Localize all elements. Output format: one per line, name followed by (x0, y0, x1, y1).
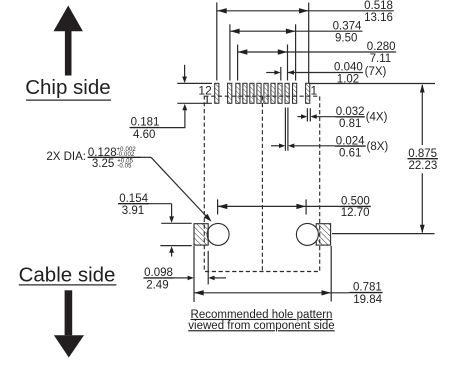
svg-text:19.84: 19.84 (353, 294, 382, 306)
svg-text:0.181: 0.181 (131, 116, 160, 128)
stub line near pin 12 (206, 96, 208, 103)
svg-text:0.875: 0.875 (408, 148, 437, 160)
dim 0.040/1.02 (7X) (266, 62, 386, 86)
svg-text:0.81: 0.81 (339, 118, 361, 130)
svg-text:2X DIA:: 2X DIA: (46, 151, 86, 163)
pad P1 (306, 83, 310, 103)
chip side label (25, 76, 111, 100)
pad P3 (285, 83, 289, 103)
left hole circle (207, 223, 229, 245)
extension line pad1 (308, 3, 310, 84)
svg-text:0.032: 0.032 (336, 106, 365, 118)
extension line pad4 (280, 67, 282, 81)
extension line pad2 (295, 24, 297, 80)
svg-text:(8X): (8X) (367, 141, 389, 153)
svg-text:13.16: 13.16 (364, 12, 393, 24)
extension line pad10 (237, 45, 239, 81)
top right reference line (309, 83, 435, 85)
svg-text:0.781: 0.781 (353, 281, 382, 293)
svg-text:3.25: 3.25 (92, 158, 114, 170)
svg-text:2.49: 2.49 (146, 279, 168, 291)
svg-text:12: 12 (198, 83, 212, 97)
dim 0.181/4.60 (130, 65, 212, 141)
svg-text:12.70: 12.70 (341, 207, 370, 219)
left hole slot (194, 224, 208, 245)
svg-text:7.11: 7.11 (370, 53, 392, 65)
svg-text:1: 1 (311, 83, 318, 97)
dim 0.098/2.49 (144, 246, 227, 302)
svg-text:0.280: 0.280 (367, 41, 396, 53)
extension line pad3 (287, 45, 289, 81)
svg-text:(7X): (7X) (365, 66, 387, 78)
chip side up arrow (54, 6, 83, 76)
dim 0.374/9.50 (230, 20, 363, 44)
svg-text:0.024: 0.024 (336, 135, 365, 147)
pad P2 (293, 83, 297, 103)
svg-text:Chip side: Chip side (25, 76, 110, 99)
dim 0.518/13.16 (217, 0, 394, 24)
callout 2X DIA (46, 147, 211, 222)
svg-text:9.50: 9.50 (335, 32, 357, 44)
pad P9 (243, 83, 247, 103)
dim 0.781/19.84 (194, 246, 383, 306)
extension line pad11 (229, 24, 231, 80)
bottom right reference line (332, 233, 435, 235)
svg-text:3.91: 3.91 (122, 205, 144, 217)
right hole circle (296, 223, 318, 245)
pad P7 (257, 83, 261, 103)
pad P11 (228, 83, 232, 103)
pad P8 (250, 83, 254, 103)
svg-text:Recommended hole pattern: Recommended hole pattern (191, 309, 333, 321)
svg-text:0.518: 0.518 (364, 0, 393, 12)
svg-text:-0.05: -0.05 (117, 163, 132, 169)
dim 0.280/7.11 (238, 41, 397, 65)
svg-text:Cable side: Cable side (19, 263, 116, 286)
svg-text:4.60: 4.60 (133, 129, 155, 141)
extension line pad12 (216, 2, 218, 80)
dim 0.032/0.81 (4X) (297, 106, 387, 130)
pad P12 (215, 83, 219, 103)
pad P5 (271, 83, 275, 103)
centerline (261, 96, 263, 271)
dim 0.500/12.70 (218, 195, 371, 219)
right hole slot (316, 224, 330, 245)
cable side label (19, 263, 117, 286)
dim 0.154/3.91 (118, 193, 192, 257)
pad P10 (236, 83, 240, 103)
body outline dashed (204, 96, 319, 271)
svg-text:0.500: 0.500 (341, 195, 370, 207)
svg-text:0.040: 0.040 (334, 62, 363, 74)
cable side down arrow (54, 290, 84, 357)
pad P4 (278, 83, 282, 103)
svg-text:0.61: 0.61 (339, 147, 361, 159)
dim 0.024/0.61 (8X) (271, 108, 388, 160)
pad P6 (264, 83, 268, 103)
svg-text:(4X): (4X) (366, 112, 388, 124)
svg-text:0.374: 0.374 (333, 20, 362, 32)
svg-text:viewed from component side: viewed from component side (188, 320, 334, 332)
svg-text:22.23: 22.23 (409, 160, 438, 172)
dim 0.875/22.23 vertical (408, 84, 438, 233)
